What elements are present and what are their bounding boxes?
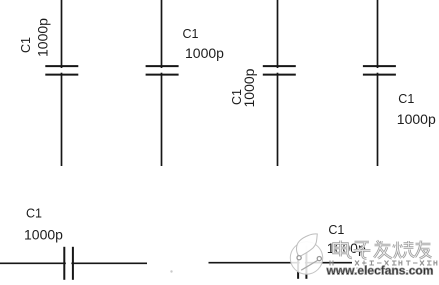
svg-text:1000p: 1000p	[185, 45, 224, 61]
svg-text:1000p: 1000p	[24, 227, 63, 243]
svg-text:C1: C1	[183, 27, 199, 41]
svg-text:1000p: 1000p	[241, 68, 257, 107]
svg-text:C1: C1	[398, 92, 414, 106]
svg-text:C1: C1	[26, 207, 42, 221]
svg-text:1000p: 1000p	[35, 18, 51, 57]
svg-text:1000p: 1000p	[397, 111, 436, 127]
svg-text:C1: C1	[328, 223, 344, 237]
svg-text:C1: C1	[19, 37, 33, 53]
svg-text:www.elecfans.com: www.elecfans.com	[326, 264, 434, 278]
